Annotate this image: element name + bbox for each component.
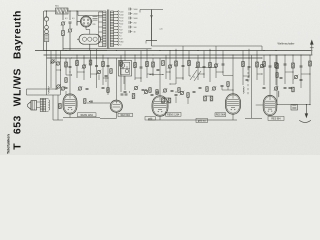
svg-text:0: 0 <box>120 26 121 28</box>
svg-text:Netz: Netz <box>55 5 59 8</box>
svg-text:150: 150 <box>120 17 123 19</box>
svg-text:30: 30 <box>134 31 136 33</box>
svg-text:RENS 1264: RENS 1264 <box>167 114 180 116</box>
svg-text:200: 200 <box>120 14 123 16</box>
svg-text:220: 220 <box>120 11 123 13</box>
svg-text:T 653 WL/WS Bayreuth: T 653 WL/WS Bayreuth <box>13 10 24 150</box>
svg-text:5000: 5000 <box>134 18 138 20</box>
svg-text:0: 0 <box>120 35 121 37</box>
svg-text:2000: 2000 <box>134 13 138 15</box>
svg-text:gelb rot: gelb rot <box>198 119 206 122</box>
svg-text:0,1: 0,1 <box>72 18 75 20</box>
svg-text:RES 964: RES 964 <box>216 115 226 117</box>
svg-text:380: 380 <box>120 41 123 43</box>
svg-text:Telefunken: Telefunken <box>6 134 10 154</box>
svg-text:RENS 1264: RENS 1264 <box>81 115 94 117</box>
svg-text:0,1: 0,1 <box>65 18 68 20</box>
svg-text:110: 110 <box>120 23 123 25</box>
svg-text:0: 0 <box>120 44 121 46</box>
svg-text:125: 125 <box>120 20 123 22</box>
svg-text:Wellenschalter: Wellenschalter <box>278 41 295 45</box>
svg-text:100: 100 <box>134 27 137 29</box>
svg-text:5000: 5000 <box>134 9 138 11</box>
svg-text:250: 250 <box>134 22 137 24</box>
svg-text:220: 220 <box>93 24 96 26</box>
svg-text:gelb: gelb <box>148 118 153 120</box>
svg-text:RES 964: RES 964 <box>271 118 281 120</box>
svg-text:REN 904: REN 904 <box>121 115 131 117</box>
